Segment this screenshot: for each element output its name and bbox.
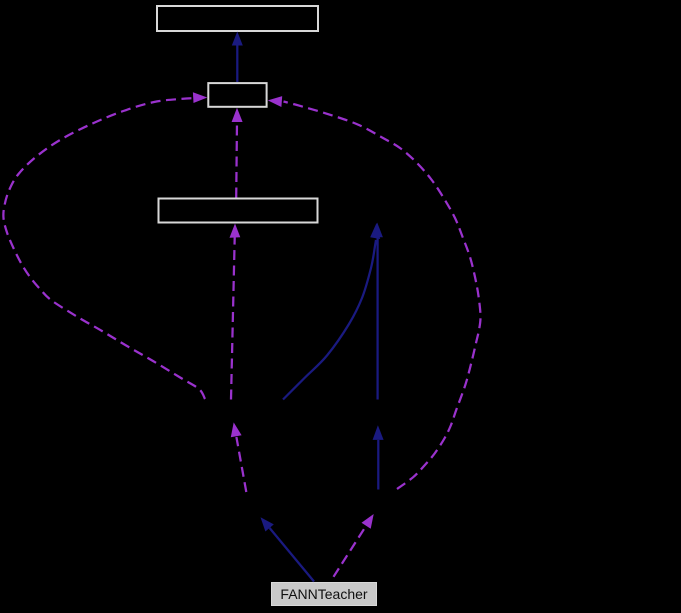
edge box3 to box2 dashed usage: [232, 108, 243, 198]
node box third wide: [159, 199, 318, 223]
edge FANNTeacher to nodeB solid inheritance: [261, 517, 315, 581]
edge nodeC to box2 big right dashed curve: [268, 96, 481, 489]
edge nodeA to nodeD solid blue curve: [283, 223, 380, 400]
svg-text:FANNTeacher: FANNTeacher: [280, 586, 367, 602]
edge FANNTeacher to nodeC dashed: [334, 514, 374, 577]
node box top (class box, empty label): [157, 6, 318, 31]
node FANNTeacher: [272, 583, 377, 606]
edge nodeC to nodeE solid blue vertical: [373, 425, 384, 489]
edge nodeE to nodeD solid blue vertical: [372, 223, 383, 400]
edge nodeA to box3 dashed: [230, 224, 241, 400]
node box middle small: [208, 83, 266, 107]
edge box2 to box1 solid inheritance: [232, 32, 243, 83]
edge nodeA to box2 big left dashed curve: [3, 92, 207, 399]
edge nodeB to nodeA dashed: [231, 422, 247, 492]
